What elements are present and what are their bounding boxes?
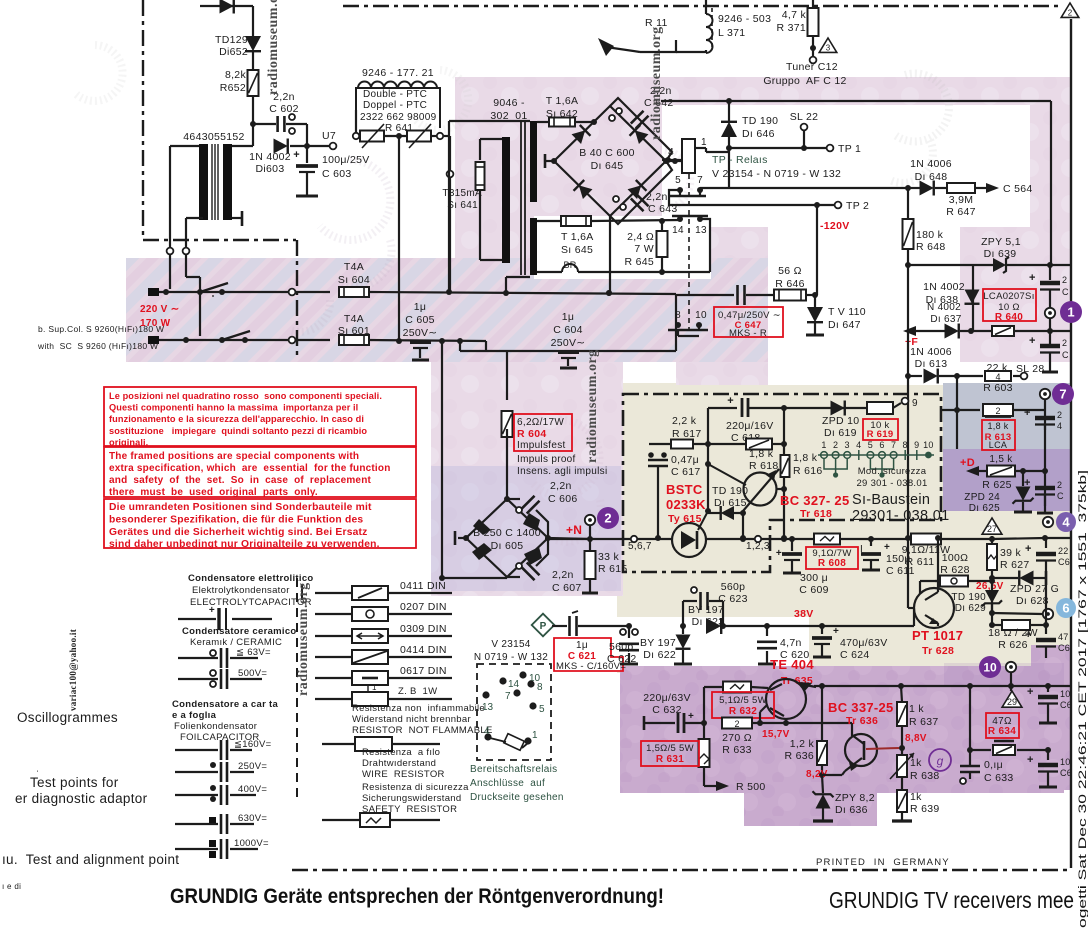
blue-gray region right xyxy=(943,383,1071,449)
border dash-dot top xyxy=(343,5,1058,7)
DIN row 0414 xyxy=(315,656,352,658)
wire Si604-trafo xyxy=(369,292,676,294)
svg-text:Doppel - PTC: Doppel - PTC xyxy=(363,100,427,111)
node P diamond xyxy=(532,614,555,637)
svg-text:9: 9 xyxy=(912,398,918,409)
svg-text:2: 2 xyxy=(1057,480,1062,490)
red box R608 xyxy=(806,547,858,569)
svg-text:1,8 k: 1,8 k xyxy=(749,448,774,460)
svg-text:Dı 639: Dı 639 xyxy=(984,248,1017,260)
wire C604 line xyxy=(459,341,461,351)
resistor R616 xyxy=(781,455,790,477)
circle-dot 6row xyxy=(992,613,1042,614)
svg-text:3,9M: 3,9M xyxy=(949,194,974,206)
svg-text:10: 10 xyxy=(983,660,997,674)
red box C647 xyxy=(714,307,783,337)
capacitor C611 xyxy=(870,539,872,546)
svg-text:R 604: R 604 xyxy=(517,428,547,440)
svg-text:TD 190: TD 190 xyxy=(742,115,778,127)
svg-text:C 624: C 624 xyxy=(840,649,870,661)
svg-text:33 k: 33 k xyxy=(598,551,619,563)
svg-text:+: + xyxy=(209,605,215,616)
zener ZPD10 xyxy=(831,401,845,416)
resistor R652 xyxy=(248,70,259,96)
svg-text:Gerätes und die Sicherheit wic: Gerätes und die Sicherheit wichtig sind.… xyxy=(109,527,368,538)
zener Di639 xyxy=(973,264,993,266)
disc 6 xyxy=(1056,598,1076,618)
triangle 2 top right xyxy=(1061,3,1079,17)
purple rail xyxy=(814,685,1070,687)
wire 180k xyxy=(907,188,909,220)
main rail xyxy=(545,538,630,540)
svg-text:C 603: C 603 xyxy=(322,168,352,180)
svg-text:+: + xyxy=(833,626,839,637)
resistor R618 xyxy=(746,439,772,450)
diode Di648 xyxy=(920,181,934,196)
svg-text:TP 2: TP 2 xyxy=(846,200,869,212)
svg-text:N 4002: N 4002 xyxy=(927,302,961,313)
capacitor C622 xyxy=(626,623,632,629)
svg-text:there must be used origina: there must be used original parts only. xyxy=(109,487,318,498)
red box R640 xyxy=(983,289,1036,321)
svg-text:7: 7 xyxy=(505,691,511,702)
capacitor C602 xyxy=(253,123,276,125)
wire secondary bottom xyxy=(480,259,502,261)
svg-text:630V=: 630V= xyxy=(238,813,267,824)
svg-text:Resistenza di sicurezza: Resistenza di sicurezza xyxy=(362,782,469,793)
B250 diode tr xyxy=(523,513,540,531)
capacitor C623 xyxy=(699,592,702,610)
capacitor C617 xyxy=(648,459,668,462)
svg-text:180 k: 180 k xyxy=(916,229,944,241)
svg-text:RESISTOR NOT FLAMMABLE: RESISTOR NOT FLAMMABLE xyxy=(352,725,493,736)
ecap purple right 1 xyxy=(1047,686,1049,692)
capacitor C606 xyxy=(507,498,520,500)
svg-text:7: 7 xyxy=(697,175,703,186)
svg-text:Folienkondensator: Folienkondensator xyxy=(174,721,257,732)
border dash-dot left xyxy=(142,0,144,238)
red box R604 xyxy=(514,414,572,451)
svg-text:+: + xyxy=(1027,686,1034,698)
wire B250 out xyxy=(548,538,590,539)
bridge diode br xyxy=(627,180,646,200)
capacitor C620 xyxy=(764,623,770,629)
svg-text:3: 3 xyxy=(845,440,850,450)
wire fuse645 line xyxy=(537,220,561,222)
resistor R638 variable xyxy=(897,755,907,777)
svg-text:Sı 604: Sı 604 xyxy=(338,274,370,286)
wire to fuse Si604 xyxy=(296,291,330,293)
svg-text:C 606: C 606 xyxy=(548,493,578,505)
svg-text:220 V ∼: 220 V ∼ xyxy=(140,304,179,315)
ecap right 2 xyxy=(1049,331,1051,344)
svg-text:4: 4 xyxy=(856,440,861,450)
svg-text:470μ/63V: 470μ/63V xyxy=(840,637,888,649)
svg-text:Dı 628: Dı 628 xyxy=(1016,595,1049,607)
svg-text:220μ/63V: 220μ/63V xyxy=(643,692,691,704)
svg-text:8,2k: 8,2k xyxy=(225,69,246,81)
svg-text:TD129: TD129 xyxy=(215,34,248,46)
capacitor C642 xyxy=(610,98,672,161)
svg-text:Condensatore ceramico: Condensatore ceramico xyxy=(182,626,297,637)
svg-text:R 617: R 617 xyxy=(672,428,702,440)
capacitor C609 xyxy=(791,539,793,551)
svg-text:+: + xyxy=(1025,629,1032,641)
capacitor C621 xyxy=(568,616,571,636)
terminal +N xyxy=(585,515,595,525)
fuse Si645 xyxy=(561,216,591,226)
svg-text:5: 5 xyxy=(539,704,545,715)
svg-text:Dı 648: Dı 648 xyxy=(915,171,948,183)
svg-text:T4A: T4A xyxy=(344,313,364,325)
fuse Si601 xyxy=(339,335,369,345)
svg-text:10: 10 xyxy=(923,440,934,450)
pink region top xyxy=(455,77,1068,270)
svg-text:R 611: R 611 xyxy=(906,556,935,568)
svg-text:1μ: 1μ xyxy=(576,640,588,651)
svg-text:LCA0207Sı: LCA0207Sı xyxy=(983,291,1034,302)
svg-text:Dı 619: Dı 619 xyxy=(824,427,857,439)
svg-text:1: 1 xyxy=(701,137,707,148)
svg-text:Anschlüsse auf: Anschlüsse auf xyxy=(470,778,545,789)
svg-text:2322 662 98009: 2322 662 98009 xyxy=(360,112,437,123)
svg-text:5,1Ω/5 5W: 5,1Ω/5 5W xyxy=(719,695,767,706)
svg-text:4: 4 xyxy=(668,147,674,158)
svg-text:Dı 629: Dı 629 xyxy=(955,603,986,614)
resistor R631 symbol xyxy=(703,723,705,738)
svg-text:8: 8 xyxy=(903,440,908,450)
red box R632 xyxy=(712,692,774,718)
svg-text:220μ/16V: 220μ/16V xyxy=(726,420,774,432)
resistor R604 xyxy=(506,351,508,400)
svg-text:Dı 623: Dı 623 xyxy=(692,616,725,628)
wire right down xyxy=(1050,101,1052,264)
relay pinout pins xyxy=(519,671,526,678)
wire 180k down xyxy=(907,265,909,376)
svg-text:250V∼: 250V∼ xyxy=(551,337,586,349)
wire x708 vertical xyxy=(707,408,709,511)
svg-text:PRINTED IN GERMANY: PRINTED IN GERMANY xyxy=(816,857,950,868)
border right vertical xyxy=(1070,19,1072,868)
wire to fuse Si601 xyxy=(296,339,330,341)
svg-text:R 625: R 625 xyxy=(982,479,1012,491)
legend ceramic 63V xyxy=(210,650,216,656)
purple bottom extension xyxy=(744,793,877,826)
legend foil 160V xyxy=(175,749,218,751)
wire TE404 base xyxy=(759,712,761,723)
svg-text:Mod. sıcurezza: Mod. sıcurezza xyxy=(858,466,927,477)
svg-text:Die umrandeten Positionen sind: Die umrandeten Positionen sind Sonderbau… xyxy=(109,502,372,513)
capacitor C603 xyxy=(306,146,308,163)
pink region central xyxy=(431,362,623,596)
svg-text:Dı 636: Dı 636 xyxy=(835,804,868,816)
svg-text:4: 4 xyxy=(1062,515,1070,530)
svg-text:22: 22 xyxy=(1058,546,1069,556)
relay dashed link xyxy=(688,174,690,330)
svg-text:V 23154: V 23154 xyxy=(491,639,530,650)
svg-text:1k: 1k xyxy=(910,757,922,769)
coil L371 xyxy=(706,14,713,53)
bridge diode tl xyxy=(571,125,590,145)
svg-text:radiomuseum.o: radiomuseum.o xyxy=(266,0,281,95)
resistor R613 top symbol xyxy=(908,409,983,411)
wire x970 down xyxy=(969,686,971,765)
resistor R615 xyxy=(589,539,591,551)
wire R618 right xyxy=(772,443,784,445)
svg-text:+: + xyxy=(1029,272,1036,284)
wire 908 down xyxy=(907,376,909,538)
resistor R648 xyxy=(903,219,914,249)
svg-text:Dı 625: Dı 625 xyxy=(969,503,1000,514)
svg-text:R 608: R 608 xyxy=(818,558,846,569)
zener ZPD27G xyxy=(992,577,1018,579)
capacitor C607 xyxy=(507,576,520,578)
svg-text:Drahtwıderstand: Drahtwıderstand xyxy=(362,758,436,769)
fusible resistor R608 xyxy=(814,534,840,545)
svg-text:39 k: 39 k xyxy=(1000,547,1021,559)
svg-text:1k: 1k xyxy=(910,791,922,803)
B250 diode bl xyxy=(472,543,492,560)
DIN row 0207 xyxy=(315,613,352,615)
wire C618 row xyxy=(708,407,737,409)
border dash-dot bottom xyxy=(292,869,1071,872)
svg-text:56 Ω: 56 Ω xyxy=(778,265,802,277)
wire Di652-R652 xyxy=(252,52,254,70)
circle-dot right 1 xyxy=(1045,308,1055,318)
svg-text:C6: C6 xyxy=(1060,700,1072,710)
svg-text:GRUNDIG TV receıvers mee: GRUNDIG TV receıvers mee xyxy=(829,887,1074,913)
svg-text:Le posizioni nel quadratino ro: Le posizioni nel quadratino rosso sono c… xyxy=(109,391,382,401)
svg-text:4,7 k: 4,7 k xyxy=(782,9,807,21)
svg-text:T315mA: T315mA xyxy=(442,188,482,199)
circle-dot 4row xyxy=(1043,517,1053,527)
wire resistor symbol xyxy=(322,743,355,745)
disc 10 xyxy=(979,656,1001,678)
red note box english xyxy=(104,447,416,497)
diode Di613 row xyxy=(908,375,922,377)
svg-text:C: C xyxy=(1057,491,1064,501)
svg-text:3: 3 xyxy=(826,43,831,52)
disc 7 xyxy=(1052,383,1074,405)
svg-text:R 647: R 647 xyxy=(946,206,976,218)
svg-text:e a foglıa: e a foglıa xyxy=(172,710,217,721)
svg-text:6: 6 xyxy=(1062,601,1069,616)
svg-text:+D: +D xyxy=(960,457,975,469)
svg-text:≦160V=: ≦160V= xyxy=(234,739,272,750)
svg-text:+: + xyxy=(688,711,694,722)
svg-text:9246 - 177. 21: 9246 - 177. 21 xyxy=(362,67,434,79)
pink region right upper xyxy=(960,77,1070,362)
wire y723 to Tr636 xyxy=(786,722,852,724)
wire contact line 188 xyxy=(908,187,920,189)
svg-text:C6: C6 xyxy=(1058,643,1070,653)
wire top stub xyxy=(200,5,253,7)
svg-text:27: 27 xyxy=(987,524,997,534)
triangle 29 xyxy=(1002,691,1022,707)
svg-text:Gruppo AF C 12: Gruppo AF C 12 xyxy=(763,75,846,87)
svg-text:R 618: R 618 xyxy=(749,460,779,472)
svg-text:0411 DIN: 0411 DIN xyxy=(400,580,446,592)
wire top rail xyxy=(661,100,1051,102)
svg-text:Dı 646: Dı 646 xyxy=(742,128,775,140)
svg-text:0,47μ: 0,47μ xyxy=(671,454,699,466)
svg-text:V 23154 - N 0719 - W 132: V 23154 - N 0719 - W 132 xyxy=(712,168,841,180)
DIN row 0411 xyxy=(315,592,352,594)
svg-text:1N 4002: 1N 4002 xyxy=(923,281,965,293)
svg-text:Condensatore a car ta: Condensatore a car ta xyxy=(172,699,278,710)
svg-text:Dı 613: Dı 613 xyxy=(915,358,948,370)
wire trafo left down xyxy=(169,146,171,248)
capacitor C647 xyxy=(675,294,677,325)
relay contact 14-13 xyxy=(677,216,683,222)
resistor R611 xyxy=(911,534,941,545)
svg-text:+: + xyxy=(1025,543,1032,555)
beige module region xyxy=(617,383,1071,673)
svg-text:0,ıμ: 0,ıμ xyxy=(984,759,1003,771)
svg-text:2: 2 xyxy=(1057,410,1062,420)
svg-text:R 603: R 603 xyxy=(983,382,1013,394)
svg-text:extra specification, which ar: extra specification, which are essential… xyxy=(109,463,391,474)
svg-text:4,7n: 4,7n xyxy=(780,637,802,649)
capacitor C633 xyxy=(960,765,980,768)
svg-text:Dı 615: Dı 615 xyxy=(714,497,747,509)
red box R631 xyxy=(641,741,699,766)
svg-text:T4A: T4A xyxy=(344,261,364,273)
svg-text:4: 4 xyxy=(995,372,1000,382)
svg-text:4: 4 xyxy=(1057,421,1062,431)
svg-text:270 Ω: 270 Ω xyxy=(722,732,752,744)
svg-text:Dı 637: Dı 637 xyxy=(930,314,961,325)
ecap purple right 2 xyxy=(1047,750,1049,760)
svg-text:C 602: C 602 xyxy=(269,103,299,115)
svg-text:1: 1 xyxy=(532,730,538,741)
svg-text:radiomuseum.org: radiomuseum.org xyxy=(585,349,600,463)
wire C605 node xyxy=(441,341,443,578)
svg-text:C6: C6 xyxy=(1058,557,1070,567)
switch S1b xyxy=(222,331,250,340)
svg-text:R 638: R 638 xyxy=(910,770,940,782)
svg-text:Sı 642: Sı 642 xyxy=(546,108,578,120)
svg-text:Widerstand nicht brennbar: Widerstand nicht brennbar xyxy=(352,714,471,725)
PTC resistor left xyxy=(360,131,384,142)
svg-text:Tuner C12: Tuner C12 xyxy=(786,61,838,73)
svg-text:ZPD 24: ZPD 24 xyxy=(964,492,1000,503)
wire PTC right down xyxy=(444,135,450,137)
wire B250 bottom xyxy=(442,577,507,579)
svg-text:Sı 601: Sı 601 xyxy=(338,325,370,337)
bridge B250C1400 xyxy=(466,499,548,577)
circle-dot 10row xyxy=(1006,662,1016,672)
svg-text:100Ω: 100Ω xyxy=(942,552,969,564)
svg-text:R 632: R 632 xyxy=(729,706,757,717)
svg-text:9246 - 503: 9246 - 503 xyxy=(718,13,771,25)
svg-text:Bereitschaftsrelais: Bereitschaftsrelais xyxy=(470,764,557,775)
svg-text:Questi componenti hanno la mas: Questi componenti hanno la massima impor… xyxy=(109,403,358,413)
svg-text:2: 2 xyxy=(1062,275,1067,285)
svg-text:Tr 618: Tr 618 xyxy=(800,508,832,520)
svg-text:besonderer Spezifikation, die: besonderer Spezifikation, die für die Fu… xyxy=(109,514,363,525)
svg-text:7: 7 xyxy=(1059,387,1066,402)
svg-text:funzionamento e la sicurezza d: funzionamento e la sicurezza dell'appare… xyxy=(109,414,364,424)
wire C602 right xyxy=(286,123,307,125)
svg-text:Druckseite gesehen: Druckseite gesehen xyxy=(470,792,564,803)
svg-text:10: 10 xyxy=(695,310,707,321)
svg-text:0617 DIN: 0617 DIN xyxy=(400,665,447,677)
legend ceramic 500V xyxy=(210,670,216,676)
node U7 junction xyxy=(304,143,310,149)
svg-text:Resistenza non infıammabile: Resistenza non infıammabile xyxy=(352,703,485,714)
svg-text:C 633: C 633 xyxy=(984,772,1014,784)
wire PTC down xyxy=(398,136,400,341)
zener ZPY82 Di636 xyxy=(822,775,823,793)
svg-text:R 648: R 648 xyxy=(916,241,946,253)
triangle 27 xyxy=(982,518,1002,534)
diode Di646 xyxy=(721,122,737,137)
B250 diode br xyxy=(524,547,542,565)
red note box german xyxy=(104,499,416,548)
blue tint B250 zone xyxy=(431,466,621,591)
terminal mains N xyxy=(148,336,159,344)
legend foil 250V xyxy=(210,762,216,768)
resistor R637 xyxy=(897,702,907,726)
B250 diode tl xyxy=(473,519,491,535)
svg-text:Dı 647: Dı 647 xyxy=(828,319,861,331)
resistor R625 xyxy=(987,466,1015,477)
svg-text:R 619: R 619 xyxy=(867,429,894,440)
svg-text:13: 13 xyxy=(695,225,707,236)
svg-text:2: 2 xyxy=(833,440,838,450)
svg-text:250V=: 250V= xyxy=(238,761,267,772)
svg-text:LCA: LCA xyxy=(989,440,1007,450)
purple bottom block xyxy=(620,666,1064,793)
node C602 left xyxy=(250,121,256,127)
border dash-dot corner xyxy=(143,239,296,241)
svg-text:560p: 560p xyxy=(721,581,746,593)
svg-text:≦ 63V=: ≦ 63V= xyxy=(236,647,271,658)
svg-text:15,7V: 15,7V xyxy=(762,729,790,740)
bridge B40C600 xyxy=(554,106,666,216)
wire PTC left lead xyxy=(355,110,357,133)
red box R634 xyxy=(986,713,1019,738)
svg-text:6: 6 xyxy=(879,440,884,450)
svg-text:4: 4 xyxy=(484,726,490,737)
wire PT base xyxy=(920,580,940,582)
svg-text:C 564: C 564 xyxy=(1003,183,1033,195)
svg-text:Sı 641: Sı 641 xyxy=(447,200,478,211)
arrow +D xyxy=(979,470,987,472)
svg-text:R 636: R 636 xyxy=(784,750,814,762)
border dash-dot mains xyxy=(296,240,298,357)
wire relay coil top xyxy=(728,101,730,123)
svg-text:WIRE RESISTOR: WIRE RESISTOR xyxy=(362,769,445,780)
svg-text:C6: C6 xyxy=(1060,768,1072,778)
circle-dot 7row xyxy=(1040,389,1050,399)
svg-text:sind daher unbedingt nur Origi: sind daher unbedingt nur Originalteile z… xyxy=(109,539,380,550)
svg-text:N 0719 - W 132: N 0719 - W 132 xyxy=(474,652,548,663)
svg-text:radiomuseum.org: radiomuseum.org xyxy=(649,26,664,140)
wire mains N xyxy=(159,339,289,341)
diode Di603 xyxy=(274,139,288,154)
wire primary bottom xyxy=(506,276,530,278)
svg-text:C 622: C 622 xyxy=(607,653,637,665)
svg-text:TP - Relaıs: TP - Relaıs xyxy=(712,154,768,166)
svg-text:C 605: C 605 xyxy=(405,314,435,326)
svg-text:C 604: C 604 xyxy=(553,324,583,336)
svg-text:1μ: 1μ xyxy=(562,311,575,323)
svg-text:560p: 560p xyxy=(609,641,634,653)
svg-text:+: + xyxy=(776,548,782,559)
purple right column xyxy=(1031,645,1071,790)
